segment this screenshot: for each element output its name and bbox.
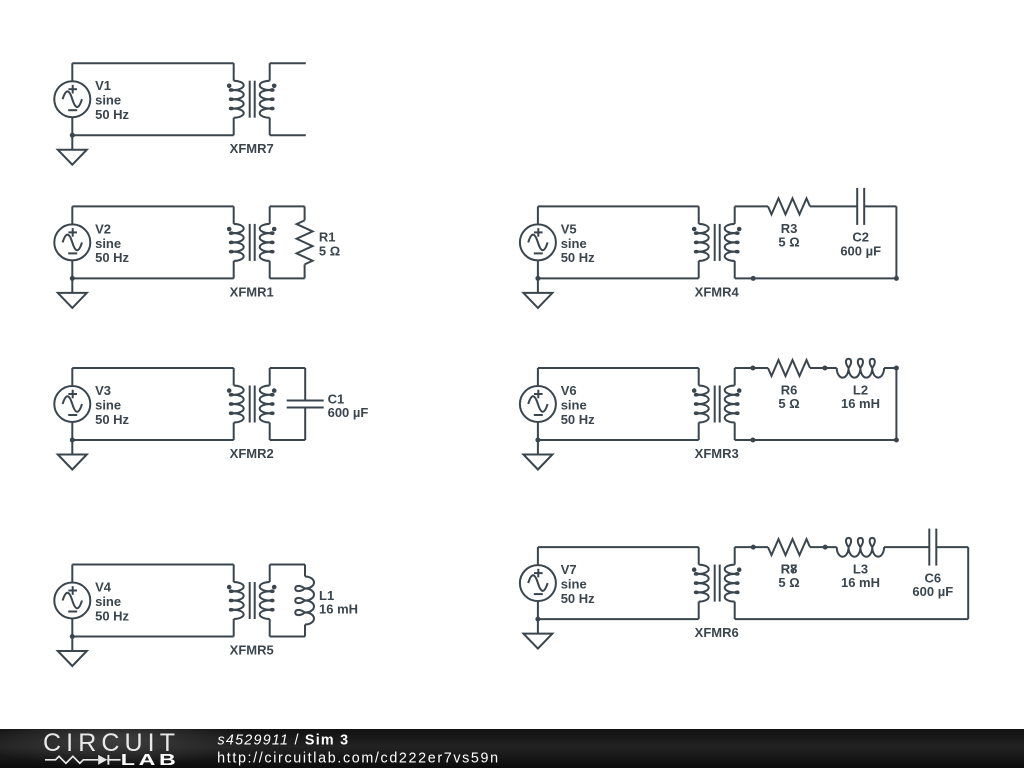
ground bbox=[523, 619, 552, 649]
inductor L3 bbox=[837, 538, 884, 557]
svg-text:XFMR3: XFMR3 bbox=[695, 446, 739, 461]
label L2 value bbox=[841, 383, 880, 412]
label C6 value bbox=[912, 570, 953, 599]
label R6 value bbox=[778, 383, 799, 412]
junction top left 6 bbox=[750, 366, 755, 371]
svg-text:XFMR4: XFMR4 bbox=[695, 284, 740, 299]
wire top primary 3 bbox=[72, 367, 233, 369]
svg-text:LAB: LAB bbox=[121, 751, 180, 768]
svg-text:V2: V2 bbox=[95, 221, 111, 236]
wire bottom primary 2 bbox=[72, 277, 233, 279]
capacitor C2 bbox=[857, 188, 864, 225]
voltage source V2 bbox=[54, 206, 90, 278]
junction bottom right 5 bbox=[894, 276, 899, 281]
wire R6 to L2 bbox=[810, 367, 837, 369]
svg-text:XFMR6: XFMR6 bbox=[695, 625, 739, 640]
junction R6-L2 bbox=[822, 366, 827, 371]
wire bottom primary 5 bbox=[538, 277, 699, 279]
svg-text:50 Hz: 50 Hz bbox=[95, 250, 129, 265]
wire secondary bottom 3 bbox=[270, 439, 306, 441]
junction at V7 bottom bbox=[535, 617, 540, 622]
svg-text:16 mH: 16 mH bbox=[319, 602, 358, 617]
wire right side down 6 bbox=[895, 368, 897, 440]
resistor R6 bbox=[768, 360, 810, 376]
svg-text:50 Hz: 50 Hz bbox=[561, 250, 595, 265]
svg-text:16 mH: 16 mH bbox=[841, 575, 880, 590]
label V3 value bbox=[95, 383, 129, 427]
svg-text:50 Hz: 50 Hz bbox=[561, 591, 595, 606]
junction at V1 bottom bbox=[70, 133, 75, 138]
wire secondary bottom 5 bbox=[735, 277, 897, 279]
label V2 value bbox=[95, 221, 129, 265]
transformer XFMR5 bbox=[227, 565, 277, 637]
junction R8-L3 bbox=[823, 545, 828, 550]
wire secondary bottom 6 bbox=[735, 439, 897, 441]
svg-text:600 µF: 600 µF bbox=[840, 243, 881, 258]
wire bottom primary 3 bbox=[72, 439, 233, 441]
transformer XFMR6 bbox=[692, 547, 742, 619]
wire secondary bottom 4 bbox=[270, 636, 305, 638]
junction at V4 bottom bbox=[70, 634, 75, 639]
transformer XFMR3 bbox=[692, 368, 742, 440]
transformer XFMR4 bbox=[692, 206, 742, 278]
voltage source V7 bbox=[520, 547, 556, 619]
wire secondary bottom 7 bbox=[735, 618, 969, 620]
wire secondary top open bbox=[270, 62, 306, 64]
wire secondary top 3 bbox=[270, 367, 306, 369]
svg-text:V5: V5 bbox=[561, 221, 577, 236]
junction top right 6 bbox=[894, 366, 899, 371]
resistor R1 bbox=[297, 206, 313, 278]
svg-text:XFMR1: XFMR1 bbox=[230, 284, 274, 299]
wire secondary bottom 2 bbox=[270, 277, 305, 279]
ground bbox=[58, 278, 87, 308]
svg-text:sine: sine bbox=[95, 236, 121, 251]
junction bottom left 6 bbox=[750, 438, 755, 443]
wire R3 to C2 bbox=[810, 205, 857, 207]
wire top primary 4 bbox=[72, 564, 233, 566]
wire secondary bottom open bbox=[270, 134, 306, 136]
logo resistor-diode squiggle bbox=[45, 755, 121, 765]
svg-text:600 µF: 600 µF bbox=[328, 405, 369, 420]
wire secondary top to R6 bbox=[735, 367, 768, 369]
svg-text:sine: sine bbox=[95, 397, 121, 412]
svg-text:50 Hz: 50 Hz bbox=[561, 412, 595, 427]
wire right side down 5 bbox=[895, 206, 897, 278]
wire bottom primary 6 bbox=[538, 439, 699, 441]
svg-text:s4529911 / Sim 3: s4529911 / Sim 3 bbox=[218, 732, 350, 748]
svg-text:sine: sine bbox=[95, 93, 121, 108]
wire secondary top to R8 bbox=[735, 546, 768, 548]
label R3 value bbox=[778, 221, 799, 250]
wire bottom primary 7 bbox=[538, 618, 699, 620]
capacitor C1 bbox=[287, 368, 324, 440]
svg-text:50 Hz: 50 Hz bbox=[95, 107, 129, 122]
wire top primary 6 bbox=[538, 367, 699, 369]
svg-text:XFMR2: XFMR2 bbox=[230, 446, 274, 461]
voltage source V3 bbox=[54, 368, 90, 440]
label L1 value bbox=[319, 588, 358, 617]
junction bottom right 6 bbox=[894, 438, 899, 443]
svg-text:sine: sine bbox=[95, 594, 121, 609]
transformer XFMR7 bbox=[227, 63, 277, 135]
svg-text:sine: sine bbox=[561, 397, 587, 412]
label R1 value bbox=[319, 230, 340, 259]
svg-text:V6: V6 bbox=[561, 383, 577, 398]
wire top primary 5 bbox=[538, 205, 699, 207]
label V6 value bbox=[561, 383, 595, 427]
ground bbox=[523, 440, 552, 470]
capacitor C6 bbox=[929, 529, 936, 566]
inductor L2 bbox=[837, 359, 884, 378]
transformer XFMR1 bbox=[227, 206, 277, 278]
svg-text:50 Hz: 50 Hz bbox=[95, 608, 129, 623]
svg-text:V7: V7 bbox=[561, 562, 577, 577]
ground bbox=[58, 135, 87, 165]
ground bbox=[523, 278, 552, 308]
svg-text:XFMR7: XFMR7 bbox=[230, 141, 274, 156]
junction at V3 bottom bbox=[70, 438, 75, 443]
wire secondary top 2 bbox=[270, 205, 305, 207]
label V1 value bbox=[95, 78, 129, 122]
wire top primary 2 bbox=[72, 205, 233, 207]
label C1 value bbox=[328, 391, 369, 420]
wire top primary 7 bbox=[538, 546, 699, 548]
voltage source V6 bbox=[520, 368, 556, 440]
resistor R3 bbox=[768, 198, 810, 214]
label R7 R8 value bbox=[778, 562, 799, 591]
wire C6 to right corner bbox=[936, 546, 968, 548]
label V7 value bbox=[561, 562, 595, 606]
svg-text:http://circuitlab.com/cd222er7: http://circuitlab.com/cd222er7vs59n bbox=[217, 751, 500, 767]
ground bbox=[58, 637, 87, 667]
wire R8 to L3 bbox=[810, 546, 837, 548]
transformer XFMR2 bbox=[227, 368, 277, 440]
label V5 value bbox=[561, 221, 595, 265]
junction at V5 bottom bbox=[535, 276, 540, 281]
voltage source V1 bbox=[54, 63, 90, 135]
wire top primary 1 bbox=[72, 62, 233, 64]
svg-text:sine: sine bbox=[561, 577, 587, 592]
wire L3 to C6 bbox=[884, 546, 929, 548]
junction at V2 bottom bbox=[70, 276, 75, 281]
svg-text:5 Ω: 5 Ω bbox=[778, 396, 799, 411]
resistor R8 (overlapping R7) bbox=[768, 539, 810, 555]
svg-text:sine: sine bbox=[561, 236, 587, 251]
ground bbox=[58, 440, 87, 470]
svg-text:5 Ω: 5 Ω bbox=[778, 575, 799, 590]
svg-text:V3: V3 bbox=[95, 383, 111, 398]
wire C2 to right corner bbox=[864, 205, 896, 207]
junction at V6 bottom bbox=[535, 438, 540, 443]
svg-text:600 µF: 600 µF bbox=[912, 584, 953, 599]
voltage source V4 bbox=[54, 565, 90, 637]
svg-text:V1: V1 bbox=[95, 78, 111, 93]
wire bottom primary 1 bbox=[72, 134, 233, 136]
wire right side down 7 bbox=[967, 547, 969, 619]
svg-text:50 Hz: 50 Hz bbox=[95, 412, 129, 427]
svg-text:V4: V4 bbox=[95, 580, 112, 595]
svg-text:5 Ω: 5 Ω bbox=[778, 234, 799, 249]
label V4 value bbox=[95, 580, 129, 624]
svg-text:16 mH: 16 mH bbox=[841, 396, 880, 411]
svg-text:5 Ω: 5 Ω bbox=[319, 243, 340, 258]
wire secondary top 4 bbox=[270, 564, 305, 566]
junction bottom left 5 bbox=[751, 276, 756, 281]
voltage source V5 bbox=[520, 206, 556, 278]
label C2 value bbox=[840, 230, 881, 259]
svg-text:XFMR5: XFMR5 bbox=[230, 643, 274, 658]
junction top left 7 bbox=[751, 545, 756, 550]
label L3 value bbox=[841, 562, 880, 591]
wire bottom primary 4 bbox=[72, 636, 233, 638]
wire L2 to right corner bbox=[884, 367, 896, 369]
inductor L1 bbox=[295, 565, 314, 637]
wire secondary top to R3 bbox=[735, 205, 768, 207]
